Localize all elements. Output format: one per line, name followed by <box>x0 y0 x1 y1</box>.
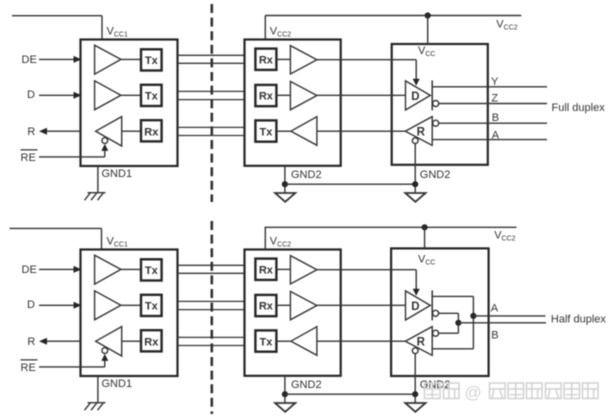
wire D input <box>39 94 75 96</box>
svg-text:R: R <box>27 336 35 348</box>
wire B stub <box>439 332 459 334</box>
buffer DE driver <box>95 45 121 74</box>
svg-text:R: R <box>27 126 35 138</box>
buffer D driver <box>95 291 121 320</box>
channel box Rx2 <box>255 259 276 280</box>
ground GND2 mid <box>275 403 295 412</box>
buffer ch2 <box>290 81 317 109</box>
wire DE input <box>39 268 75 270</box>
wire pair1 line A <box>178 264 245 266</box>
wire GND2 mid <box>284 166 286 193</box>
wire R output <box>45 130 81 132</box>
svg-text:Tx: Tx <box>259 126 273 138</box>
junction VCC2 rail <box>425 12 431 18</box>
junction GND2 mid <box>282 391 288 397</box>
wire R output <box>317 130 405 132</box>
svg-text:GND2: GND2 <box>420 169 451 181</box>
watermark zhihu text <box>425 383 599 399</box>
junction A <box>470 313 476 319</box>
wire Y line <box>432 86 547 88</box>
wire Rx3 out <box>276 94 290 96</box>
wire R enable to GND2 <box>414 354 416 403</box>
wire Rx2 out <box>276 58 290 60</box>
buffer ch3 <box>291 327 317 356</box>
junction GND2 mid <box>282 181 288 187</box>
transceiver block U2 box <box>245 250 341 376</box>
wire GND1 <box>97 166 99 193</box>
transceiver block U1 box <box>81 250 178 377</box>
transceiver block U1 box <box>81 40 178 167</box>
driver D triangle <box>406 81 431 110</box>
wire pair1 line B <box>178 62 245 64</box>
svg-text:GND1: GND1 <box>102 378 133 390</box>
channel box Rx1 <box>141 330 162 351</box>
buffer D driver <box>95 81 121 110</box>
wire Z-B link <box>457 313 459 333</box>
wire VCC2 drop <box>427 16 429 45</box>
wire D input <box>317 304 406 306</box>
svg-text:Tx: Tx <box>145 265 159 277</box>
wire R enable to GND2 <box>414 144 416 193</box>
buffer ch1 <box>290 46 317 74</box>
wire D out top <box>432 295 473 297</box>
wire buffer to Tx2 <box>121 304 141 306</box>
bubble R enable <box>102 138 108 144</box>
isolation barrier top <box>211 4 214 202</box>
buffer R receiver <box>96 117 122 146</box>
junction B <box>455 320 461 326</box>
svg-text:Rx: Rx <box>259 264 274 276</box>
wire R receiver to Rx <box>122 340 141 342</box>
bubble R enable <box>102 348 108 354</box>
svg-text:GND2: GND2 <box>291 379 322 391</box>
svg-text:Tx: Tx <box>145 55 159 67</box>
channel box Rx3 <box>255 295 276 316</box>
wire Tx3 in <box>276 130 291 132</box>
wire VCC1 feed <box>12 15 102 17</box>
bar D outputs <box>431 80 433 110</box>
wire A line <box>473 315 545 317</box>
svg-text:DE: DE <box>22 54 37 66</box>
svg-text:B: B <box>491 329 498 341</box>
channel box Tx2 <box>141 295 162 316</box>
wire VCC1 feed <box>10 227 102 229</box>
svg-text:D: D <box>411 91 419 103</box>
wire A to R input <box>431 348 473 350</box>
svg-text:Y: Y <box>491 76 499 88</box>
isolation barrier bottom <box>211 221 214 414</box>
wire pair3 line B <box>178 135 245 137</box>
svg-text:DE: DE <box>22 264 37 276</box>
receiver R triangle <box>405 117 432 146</box>
junction GND2 right <box>412 181 418 187</box>
wire D input <box>39 304 75 306</box>
svg-text:Full duplex: Full duplex <box>552 102 606 114</box>
bubble R enable2 <box>412 138 418 144</box>
bubble Z out <box>433 101 439 107</box>
svg-text:@: @ <box>465 383 482 402</box>
bubble Z out2 <box>433 310 439 316</box>
driver D triangle <box>406 291 431 320</box>
wire R output <box>45 340 81 342</box>
wire A drop <box>472 296 474 348</box>
svg-text:Rx: Rx <box>259 301 274 313</box>
channel box Tx1 <box>141 49 162 70</box>
svg-text:Rx: Rx <box>144 336 159 348</box>
ground GND2 mid <box>275 193 295 202</box>
wire B line <box>458 322 546 324</box>
bubble R enable2 <box>412 348 418 354</box>
svg-text:Rx: Rx <box>259 91 274 103</box>
buffer R receiver <box>96 327 122 356</box>
ground GND2 right <box>405 193 425 202</box>
wire pair3 line A <box>178 126 245 128</box>
wire buffer to Tx2 <box>121 94 141 96</box>
svg-text:RE: RE <box>21 362 36 374</box>
svg-text:D: D <box>27 89 35 101</box>
channel box Rx3 <box>255 85 276 106</box>
wire VCC2 stub <box>264 227 266 249</box>
svg-text:R: R <box>417 337 426 349</box>
wire VCC2 rail <box>265 226 517 228</box>
buffer ch3 <box>291 117 317 146</box>
svg-text:A: A <box>491 303 499 315</box>
wire Z line <box>439 103 547 105</box>
wire GND2 bus <box>285 393 415 395</box>
wire VCC2 rail <box>265 15 521 17</box>
wire pair2 line A <box>178 300 245 302</box>
svg-text:R: R <box>417 127 426 139</box>
wire Tx3 in <box>276 340 291 342</box>
channel box Rx2 <box>255 49 276 70</box>
wire D input <box>317 94 406 96</box>
svg-text:Half duplex: Half duplex <box>551 314 607 326</box>
svg-text:B: B <box>492 112 499 124</box>
wire Rx3 out <box>276 304 290 306</box>
junction GND2 right <box>412 391 418 397</box>
wire pair2 line B <box>178 309 245 311</box>
wire pair2 line A <box>178 90 245 92</box>
wire pair1 line A <box>178 54 245 56</box>
wire pair3 line A <box>178 336 245 338</box>
wire B line <box>439 122 547 124</box>
buffer ch1 <box>290 256 317 284</box>
svg-text:Tx: Tx <box>145 301 159 313</box>
ground earth GND1 <box>88 192 106 194</box>
wire VCC2 stub <box>264 16 266 40</box>
wire DE cross to D enable <box>317 59 416 61</box>
junction VCC2 rail <box>422 224 428 230</box>
wire pair2 line B <box>178 99 245 101</box>
svg-text:D: D <box>411 301 419 313</box>
wire RE enable <box>39 156 105 158</box>
wire buffer to Tx1 <box>121 268 141 270</box>
bubble B in <box>433 120 439 126</box>
channel box Tx1 <box>141 259 162 280</box>
svg-text:Rx: Rx <box>144 126 159 138</box>
buffer DE driver <box>95 255 121 284</box>
svg-text:Z: Z <box>491 93 498 105</box>
svg-text:RE: RE <box>21 152 36 164</box>
wire VCC2 drop <box>424 227 426 248</box>
bus block U3 box <box>392 44 488 165</box>
wire DE input <box>39 58 75 60</box>
bubble B in2 <box>433 330 439 336</box>
wire pair3 line B <box>178 345 245 347</box>
wire GND1 <box>97 376 99 403</box>
wire A line <box>432 139 547 141</box>
receiver R triangle <box>405 327 432 356</box>
bus block U3 box <box>391 248 489 376</box>
wire GND2 bus <box>285 183 415 185</box>
svg-text:GND2: GND2 <box>291 169 322 181</box>
svg-text:GND1: GND1 <box>102 168 133 180</box>
wire Z stub <box>439 312 459 314</box>
channel box Tx3 <box>255 330 276 351</box>
wire DE cross to D enable <box>317 269 416 271</box>
svg-text:Tx: Tx <box>145 91 159 103</box>
buffer ch2 <box>290 291 317 319</box>
wire RE enable <box>39 366 105 368</box>
channel box Tx3 <box>255 120 276 141</box>
wire buffer to Tx1 <box>121 58 141 60</box>
svg-text:Rx: Rx <box>259 54 274 66</box>
svg-text:Tx: Tx <box>259 336 273 348</box>
bar D outputs <box>431 290 433 320</box>
svg-text:D: D <box>27 299 35 311</box>
channel box Tx2 <box>141 85 162 106</box>
ground earth GND1 <box>88 402 106 404</box>
transceiver block U2 box <box>245 40 341 166</box>
wire Rx2 out <box>276 268 290 270</box>
ground GND2 right <box>405 403 425 412</box>
wire R output <box>317 340 405 342</box>
wire pair1 line B <box>178 272 245 274</box>
svg-text:A: A <box>492 129 500 141</box>
wire R receiver to Rx <box>122 130 141 132</box>
wire GND2 mid <box>284 376 286 403</box>
channel box Rx1 <box>141 120 162 141</box>
